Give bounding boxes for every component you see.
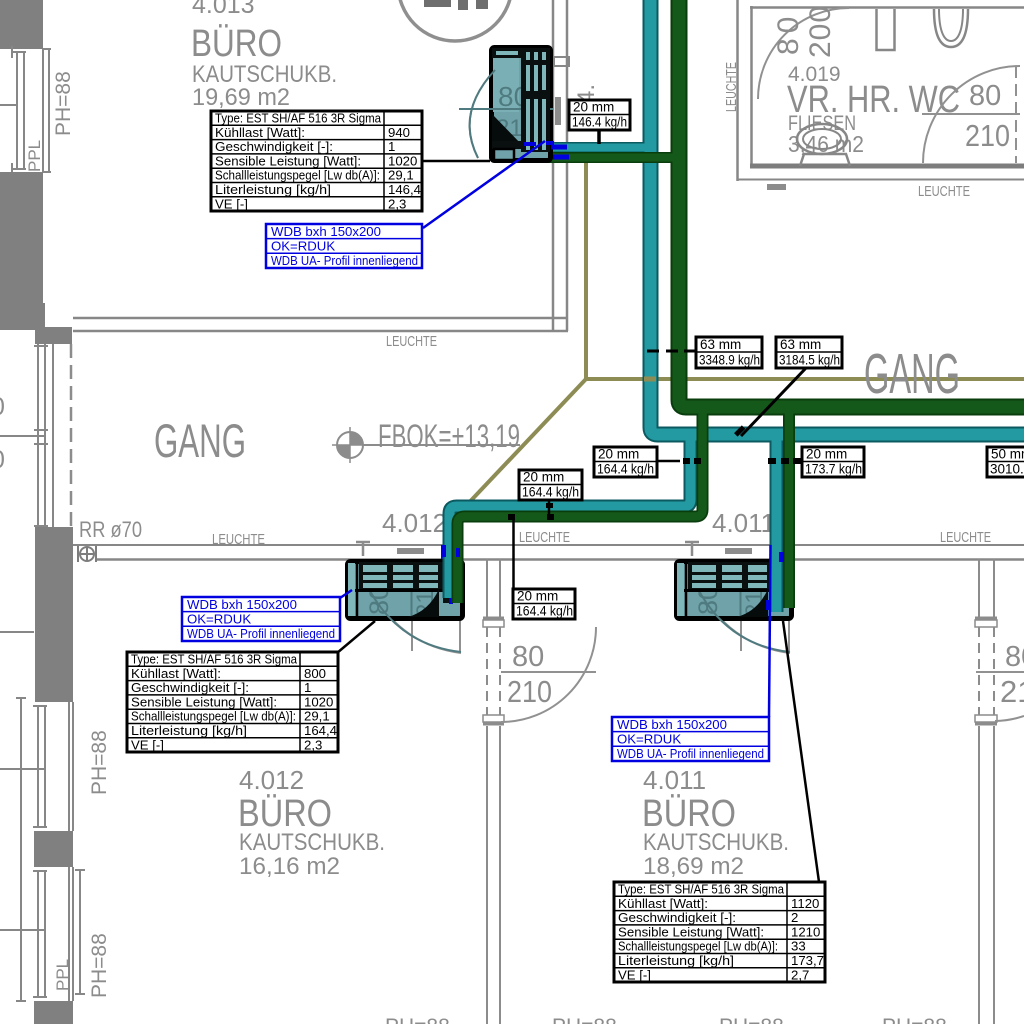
blue leader 4.012 [340,590,352,598]
window W4 [33,867,85,1001]
section tick left [356,542,370,556]
svg-text:GANG: GANG [154,414,246,467]
svg-text:KAUTSCHUKB.: KAUTSCHUKB. [643,829,789,856]
door right room separator [976,671,1024,673]
luminaire bar below WC [767,184,786,190]
svg-text:WDB UA- Profil innenliegend: WDB UA- Profil innenliegend [187,626,335,641]
leader table 4.013 to unit [422,160,490,163]
svg-text:PH=88: PH=88 [88,933,111,998]
svg-text:210: 210 [1000,674,1024,709]
svg-text:80: 80 [512,641,544,673]
door marker B bottom [975,715,997,726]
svg-text:WDB bxh 150x200: WDB bxh 150x200 [187,597,297,612]
door marker A top [483,617,504,628]
pipe label 20mm/146.4 [569,100,630,131]
svg-text:50 mm: 50 mm [991,447,1024,462]
WC right door leaf dashed [1015,66,1017,163]
green pipes fills [458,0,1024,603]
svg-text:KAUTSCHUKB.: KAUTSCHUKB. [239,829,385,856]
svg-text:20 mm: 20 mm [598,447,639,462]
teal pipes fills [450,0,1024,600]
wall A between rooms 4.012/4.011 [487,559,500,1024]
WC room bottom wall thick [750,164,1024,169]
svg-text:164.4 kg/h: 164.4 kg/h [522,485,579,500]
svg-text:4.012: 4.012 [239,765,304,795]
door under unit 4.012 arc [370,588,461,653]
WDB annotation box 4.013 [266,224,422,268]
svg-text:Kühllast [Watt]:: Kühllast [Watt]: [131,666,221,681]
svg-text:VE [-]: VE [-] [131,737,164,752]
svg-text:80: 80 [1005,641,1024,673]
svg-text:OK=RDUK: OK=RDUK [617,732,681,747]
door under unit 4.011 leaf lines [740,618,742,651]
svg-text:173.7 kg/h: 173.7 kg/h [805,462,862,477]
svg-text:PH=88: PH=88 [88,730,111,795]
door 4.011 arc [501,627,596,722]
svg-text:146,4: 146,4 [388,182,421,197]
window W1 frame [0,46,51,175]
svg-text:80: 80 [969,80,1001,112]
svg-text:Type: EST SH/AF 516 3R Sigma: Type: EST SH/AF 516 3R Sigma [131,652,298,667]
blue leader 4.013 [423,141,545,228]
svg-text:0: 0 [0,393,5,421]
grid bubble digits [424,0,488,10]
wall left fill below corridor [35,527,73,702]
svg-text:OK=RDUK: OK=RDUK [187,612,251,627]
WDB annotation box 4.012 [182,597,340,641]
olive dash over teal riser [644,377,656,382]
svg-text:WDB bxh 150x200: WDB bxh 150x200 [617,717,727,732]
dashed corridor boundary line [70,344,73,528]
WC right door arc [923,66,1020,163]
door under unit 4.011 arc [699,588,790,653]
wall left exterior fill mid [0,172,43,305]
svg-text:3348.9 kg/h: 3348.9 kg/h [699,353,760,368]
svg-text:WDB UA- Profil innenliegend: WDB UA- Profil innenliegend [271,253,418,268]
svg-text:OK=RDUK: OK=RDUK [271,239,335,254]
svg-text:4.011: 4.011 [712,508,775,538]
spec table unit 4.013 [211,111,422,212]
svg-text:1120: 1120 [791,896,819,911]
wall left fill bottom [34,1001,73,1024]
svg-text:20 mm: 20 mm [806,447,847,462]
svg-text:80: 80 [772,12,805,55]
svg-text:Schallleistungspegel [Lw db(A): Schallleistungspegel [Lw db(A)]: [215,168,380,183]
unit 4.012 connection stubs blue [441,545,460,604]
svg-text:1: 1 [304,680,311,695]
WDB annotation box 4.011 [612,717,769,761]
door frame bar [555,97,561,125]
svg-text:4.013: 4.013 [192,0,255,19]
svg-text:2: 2 [791,910,798,925]
unit 4.011 pipes over unit [777,557,790,612]
section tick right [685,542,699,556]
pipe label 20mm/164.4 lower [513,589,575,620]
svg-text:WDB bxh 150x200: WDB bxh 150x200 [271,224,381,239]
svg-text:16,16 m2: 16,16 m2 [239,853,340,880]
svg-text:3184.5 kg/h: 3184.5 kg/h [779,353,840,368]
corridor bottom wall line 1 [73,544,1024,546]
door right room arc [995,716,1024,721]
svg-text:18,69 m2: 18,69 m2 [643,853,744,880]
door marker A bottom [483,715,504,726]
teal pipes outlines [450,0,1024,600]
svg-text:PH=88: PH=88 [882,1015,947,1024]
luminaire bar left [397,548,424,554]
svg-text:20 mm: 20 mm [573,100,614,115]
sink bowl [797,124,847,154]
svg-text:PPL: PPL [53,959,72,991]
WC corridor line [737,179,1024,181]
svg-text:LEUCHTE: LEUCHTE [386,333,437,350]
svg-text:173,7: 173,7 [791,953,824,968]
svg-text:LEUCHTE: LEUCHTE [940,529,991,546]
svg-text:PH=88: PH=88 [385,1015,450,1024]
PIPES [450,0,1024,603]
sprinkler symbol [78,546,96,562]
svg-text:PH=88: PH=88 [552,1015,617,1024]
svg-text:63 mm: 63 mm [780,337,821,352]
pipe label 63mm/3348.9 [696,337,762,368]
svg-text:LEUCHTE: LEUCHTE [519,529,570,546]
svg-text:200: 200 [804,5,837,58]
svg-text:Sensible Leistung [Watt]:: Sensible Leistung [Watt]: [131,694,277,709]
wall B between 4.011/right room [979,559,994,1024]
svg-text:1020: 1020 [304,694,333,709]
door under unit 4.012 leaf lines [411,618,413,651]
svg-text:LEUCHTE: LEUCHTE [723,62,740,112]
svg-text:WDB UA- Profil innenliegend: WDB UA- Profil innenliegend [617,746,764,761]
svg-text:164.4 kg/h: 164.4 kg/h [516,604,573,619]
fan coil unit 4.013 (vertical) [459,48,553,161]
unit 4.011 stubs blue [766,552,784,610]
svg-text:VE [-]: VE [-] [618,967,651,982]
svg-text:0: 0 [0,446,5,474]
svg-text:1: 1 [388,139,395,154]
door 4.013 arc [470,70,495,158]
leader label L4 [657,460,680,463]
wall between 4.013 and 4.014 [552,0,555,331]
svg-text:2,7: 2,7 [791,967,809,982]
svg-text:29,1: 29,1 [304,709,330,724]
spec table unit 4.012 [127,652,338,753]
leader label L3 diagonal [741,368,806,436]
WC room left wall [750,6,753,166]
grid bubble circle [398,0,512,41]
svg-text:2,3: 2,3 [388,196,406,211]
WC right door separator [922,113,1020,115]
svg-text:Sensible Leistung [Watt]:: Sensible Leistung [Watt]: [618,924,764,939]
green pipes outlines [458,0,1024,603]
svg-text:210: 210 [965,118,1010,153]
leader table 4.012 [337,621,375,653]
svg-text:Type: EST SH/AF 516 3R Sigma: Type: EST SH/AF 516 3R Sigma [215,111,382,126]
svg-text:Literleistung [kg/h]: Literleistung [kg/h] [131,723,247,738]
leader label L8 [512,518,515,589]
wall left exterior fill top [0,0,43,49]
leader label L2 dashes [647,350,696,353]
pipe label 20mm/164.4 upper [519,470,582,501]
svg-text:Geschwindigkeit [-]:: Geschwindigkeit [-]: [618,910,736,925]
svg-text:Kühllast [Watt]:: Kühllast [Watt]: [215,125,305,140]
svg-text:1210: 1210 [791,924,820,939]
leader label L1 [597,130,601,144]
wall pillar between windows [34,831,73,867]
fan coil unit 4.011 (horizontal) [677,562,792,653]
svg-text:20 mm: 20 mm [523,470,564,485]
door 4.013 separator line [459,108,553,110]
corridor bottom wall line 2 [97,558,1024,561]
pipe olive condensate line [586,156,1024,379]
wall corner block [0,303,45,330]
fan coil unit 4.012 (horizontal) [348,562,463,653]
leader table 4.011 [783,621,819,882]
window W3 [0,698,73,1001]
door marker B top [975,617,997,628]
svg-text:Type: EST SH/AF 516 3R Sigma: Type: EST SH/AF 516 3R Sigma [618,882,785,897]
svg-text:4.012: 4.012 [382,508,447,538]
WC block left wall [736,0,739,181]
svg-text:PH=88: PH=88 [719,1015,784,1024]
blue WDB line at unit 4.011 [769,545,771,717]
corridor top wall [73,317,568,320]
pipe label 20mm/173.7 [802,447,864,478]
FBOK dimension line [363,444,520,446]
svg-text:Geschwindigkeit [-]:: Geschwindigkeit [-]: [215,139,333,154]
spec table unit 4.011 [614,882,825,983]
svg-text:Literleistung [kg/h]: Literleistung [kg/h] [215,182,331,197]
pipe label 50mm/3010.8 cut [987,447,1024,478]
svg-text:164,4: 164,4 [304,723,337,738]
svg-text:210: 210 [507,674,552,709]
svg-text:146.4 kg/h: 146.4 kg/h [572,115,627,130]
luminaire bar right [725,548,752,554]
WC entry door arc [758,8,849,99]
unit 4.012 pipes over unit [450,557,458,603]
svg-text:Kühllast [Watt]:: Kühllast [Watt]: [618,896,708,911]
svg-text:VE [-]: VE [-] [215,196,248,211]
svg-text:63 mm: 63 mm [700,337,741,352]
svg-text:LEUCHTE: LEUCHTE [918,183,970,200]
svg-text:800: 800 [304,666,326,681]
svg-text:20 mm: 20 mm [517,589,558,604]
leader label L7 [548,499,551,517]
door frame tick [554,57,569,66]
unit 4.013 connection stubs blue [524,141,569,160]
svg-text:33: 33 [791,939,806,954]
svg-text:29,1: 29,1 [388,168,414,183]
svg-text:164.4 kg/h: 164.4 kg/h [597,462,654,477]
door 4.011 separator [501,671,596,673]
svg-text:4.011: 4.011 [643,765,706,795]
svg-text:GANG: GANG [864,342,960,406]
svg-text:PH=88: PH=88 [52,71,75,136]
svg-text:Literleistung [kg/h]: Literleistung [kg/h] [618,953,734,968]
svg-text:PPL: PPL [25,140,44,172]
window W2 (corridor) [0,344,53,529]
svg-text:Schallleistungspegel [Lw db(A): Schallleistungspegel [Lw db(A)]: [131,709,296,724]
FBOK symbol [332,427,368,463]
leader label L5 [768,458,776,464]
svg-text:BÜRO: BÜRO [191,23,282,65]
svg-text:940: 940 [388,125,410,140]
sink pedestal [800,154,850,166]
svg-text:2,3: 2,3 [304,737,322,752]
svg-text:3010.8: 3010.8 [990,462,1024,477]
svg-text:Sensible Leistung [Watt]:: Sensible Leistung [Watt]: [215,153,361,168]
svg-text:FBOK=+13,19: FBOK=+13,19 [378,418,520,454]
svg-text:RR ø70: RR ø70 [79,517,142,542]
dimension line left mid [0,631,34,633]
WC room top wall [750,6,1024,9]
svg-text:19,69 m2: 19,69 m2 [192,84,290,111]
pipe olive diagonal to unit 4.012 [462,379,586,510]
WC niche [877,9,895,50]
urinal [934,9,968,47]
svg-text:1020: 1020 [388,153,417,168]
svg-text:Schallleistungspegel [Lw db(A): Schallleistungspegel [Lw db(A)]: [618,939,778,954]
pipe label 20mm/164.4 corridor [594,447,657,478]
svg-text:Geschwindigkeit [-]:: Geschwindigkeit [-]: [131,680,249,695]
pipe label 63mm/3184.5 [776,337,842,368]
